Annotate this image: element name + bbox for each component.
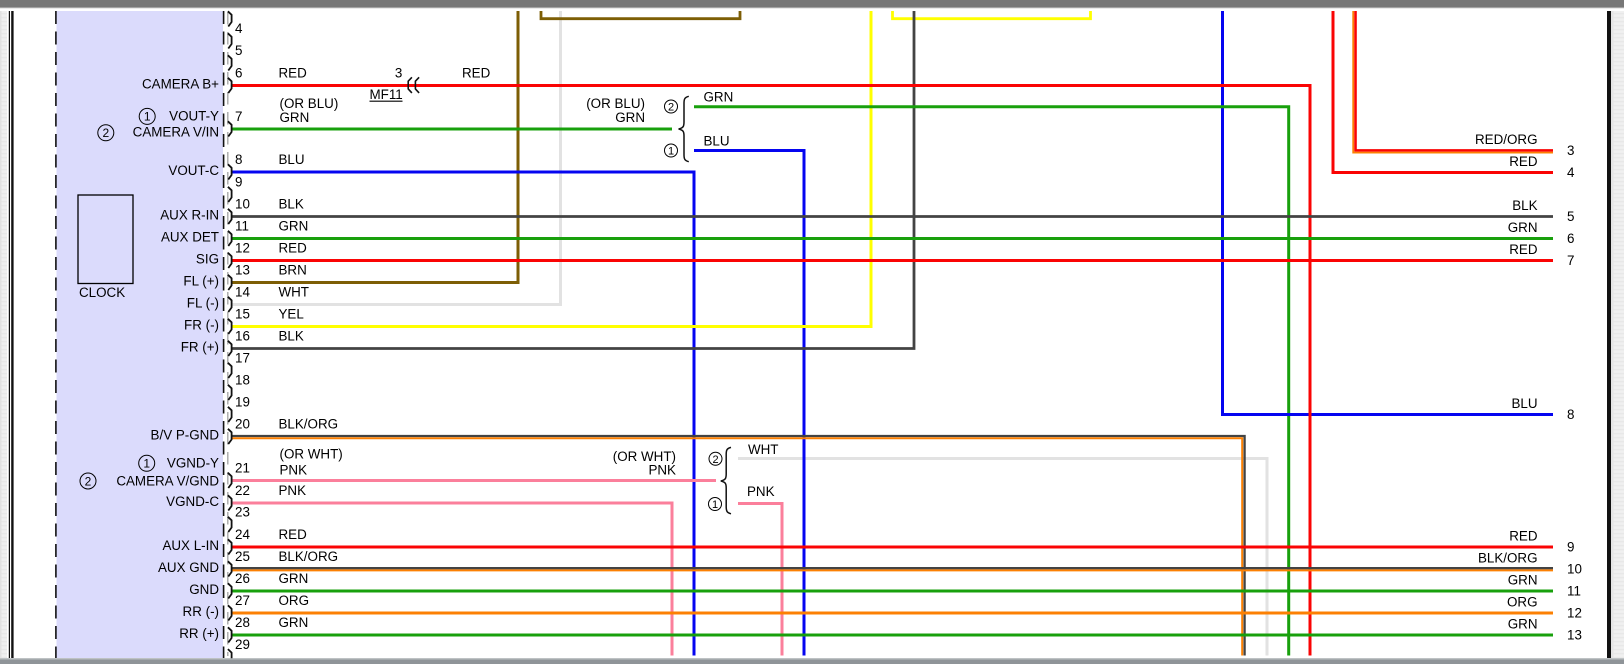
svg-text:(OR WHT): (OR WHT) <box>280 447 343 462</box>
svg-text:FR (-): FR (-) <box>184 317 219 332</box>
svg-text:1: 1 <box>143 457 150 471</box>
wire pin22 PNK VGND-C: down to bottom <box>232 503 672 656</box>
svg-text:27: 27 <box>235 593 250 608</box>
svg-text:RED: RED <box>279 527 308 542</box>
wire pin20 BLK/ORG orange part <box>232 438 1242 655</box>
bottom scrollbar <box>0 659 1624 664</box>
svg-text:7: 7 <box>1567 253 1574 268</box>
svg-text:22: 22 <box>235 483 250 498</box>
svg-text:B/V P-GND: B/V P-GND <box>151 427 220 442</box>
svg-text:9: 9 <box>1567 540 1574 555</box>
svg-text:GRN: GRN <box>279 219 309 234</box>
svg-text:25: 25 <box>235 549 250 564</box>
svg-text:1: 1 <box>668 145 674 157</box>
svg-text:WHT: WHT <box>279 285 310 300</box>
svg-text:23: 23 <box>235 505 250 520</box>
svg-text:5: 5 <box>1567 209 1574 224</box>
radio box dashed left border <box>55 11 57 658</box>
wire pin10 BLK AUX R-IN to right pin5 <box>232 215 1553 218</box>
svg-text:BLU: BLU <box>704 134 730 149</box>
svg-text:12: 12 <box>235 241 250 256</box>
svg-text:GRN: GRN <box>1508 617 1538 632</box>
svg-text:2: 2 <box>102 126 109 140</box>
svg-text:4: 4 <box>235 21 243 36</box>
wire right pin8 BLU horizontal <box>1221 413 1553 416</box>
svg-text:RR (-): RR (-) <box>183 604 219 619</box>
svg-text:7: 7 <box>235 109 242 124</box>
svg-text:15: 15 <box>235 307 250 322</box>
circled 2 CAMERA V/GND <box>80 473 96 489</box>
svg-text:MF11: MF11 <box>370 87 403 102</box>
svg-text:AUX L-IN: AUX L-IN <box>162 538 219 553</box>
svg-text:GRN: GRN <box>279 615 309 630</box>
svg-text:VOUT-Y: VOUT-Y <box>169 109 219 124</box>
svg-text:FL (-): FL (-) <box>187 295 219 310</box>
svg-text:3: 3 <box>395 66 402 81</box>
svg-text:ORG: ORG <box>279 593 310 608</box>
connector pin sockets <box>228 11 232 664</box>
svg-text:GRN: GRN <box>1508 573 1538 588</box>
wire pin13 BRN: connector to top edge <box>232 11 518 283</box>
svg-text:6: 6 <box>1567 231 1574 246</box>
svg-text:BLK: BLK <box>279 329 304 344</box>
svg-text:RED/ORG: RED/ORG <box>1475 132 1538 147</box>
circled 1 at lower brace <box>709 498 722 511</box>
top scrollbar/title bar <box>0 0 1624 7</box>
svg-text:BRN: BRN <box>279 263 307 278</box>
wire right pin3 RED/ORG red part <box>1356 11 1554 150</box>
svg-text:RED: RED <box>279 66 308 81</box>
clock box <box>78 195 133 284</box>
svg-text:18: 18 <box>235 373 250 388</box>
svg-text:YEL: YEL <box>279 307 304 322</box>
circled 1 VGND-Y <box>139 455 155 471</box>
svg-text:AUX DET: AUX DET <box>161 229 219 244</box>
svg-text:2: 2 <box>85 474 92 488</box>
circled 1 VOUT-Y <box>139 108 155 124</box>
wire pin27 ORG RR(-) to right pin12 <box>232 612 1553 615</box>
right page edge texture <box>1611 11 1624 658</box>
svg-text:8: 8 <box>235 152 242 167</box>
svg-text:GRN: GRN <box>615 110 645 125</box>
svg-text:10: 10 <box>235 197 250 212</box>
svg-text:CLOCK: CLOCK <box>79 285 125 300</box>
svg-text:RED: RED <box>1509 242 1538 257</box>
svg-text:RED: RED <box>279 241 308 256</box>
svg-text:GRN: GRN <box>280 110 310 125</box>
svg-text:(OR BLU): (OR BLU) <box>280 96 339 111</box>
left page edge texture <box>0 11 7 658</box>
wire pin28 GRN RR(+) to right pin13 <box>232 634 1553 637</box>
connector spine (gray dashes) <box>227 12 229 656</box>
svg-text:AUX R-IN: AUX R-IN <box>160 207 219 222</box>
svg-text:2: 2 <box>668 101 674 113</box>
svg-text:BLK/ORG: BLK/ORG <box>279 417 339 432</box>
svg-text:11: 11 <box>1567 584 1581 599</box>
svg-text:(OR BLU): (OR BLU) <box>586 96 645 111</box>
circled 2 at upper brace <box>665 100 678 113</box>
wire right pin4 RED from top edge <box>1333 11 1553 173</box>
svg-text:1: 1 <box>144 110 151 124</box>
svg-text:CAMERA V/GND: CAMERA V/GND <box>116 473 219 488</box>
svg-text:2: 2 <box>712 454 718 466</box>
svg-text:9: 9 <box>235 175 242 190</box>
svg-text:26: 26 <box>235 571 250 586</box>
wire right pin3 RED/ORG orange part <box>1353 11 1553 153</box>
wire pin16 BLK: connector to top edge <box>232 11 914 349</box>
svg-text:FR (+): FR (+) <box>181 339 219 354</box>
radio unit box (lavender) <box>57 11 224 658</box>
wire branch 1 BLU from brace down to bottom <box>694 151 804 656</box>
wire pin25 BLK/ORG AUX GND orange part <box>232 569 1553 571</box>
wire pin8 BLU VOUT-C: connector down to bottom <box>232 172 694 656</box>
svg-text:RR (+): RR (+) <box>179 626 219 641</box>
wire pin20 BLK/ORG black part <box>232 436 1245 656</box>
svg-text:VGND-Y: VGND-Y <box>167 456 219 471</box>
svg-text:CAMERA V/IN: CAMERA V/IN <box>133 125 219 140</box>
wire branch 1 PNK from lower brace down to bottom <box>738 504 782 656</box>
svg-text:VOUT-C: VOUT-C <box>168 163 219 178</box>
wire pin21 PNK to lower brace <box>232 479 716 482</box>
brace pin21 split <box>721 447 731 513</box>
svg-text:21: 21 <box>235 461 250 476</box>
svg-text:BLU: BLU <box>279 152 305 167</box>
svg-text:12: 12 <box>1567 606 1582 621</box>
wire pin24 RED AUX L-IN to right pin9 <box>232 546 1553 549</box>
svg-text:GRN: GRN <box>279 571 309 586</box>
svg-text:17: 17 <box>235 351 250 366</box>
wire pin11 GRN AUX DET to right pin6 <box>232 237 1553 240</box>
svg-text:13: 13 <box>1567 628 1582 643</box>
svg-text:VGND-C: VGND-C <box>166 494 219 509</box>
svg-text:13: 13 <box>235 263 250 278</box>
wire branch 2 WHT from lower brace down to bottom <box>738 459 1267 656</box>
wire branch 2 GRN from brace down to bottom <box>694 107 1289 656</box>
svg-text:BLU: BLU <box>1511 396 1537 411</box>
circled 2 CAMERA V/IN <box>98 125 114 141</box>
wire pin25 BLK/ORG AUX GND black part <box>232 567 1553 569</box>
svg-text:AUX GND: AUX GND <box>158 560 219 575</box>
svg-text:BLK/ORG: BLK/ORG <box>279 549 339 564</box>
svg-text:6: 6 <box>235 66 242 81</box>
svg-text:20: 20 <box>235 417 250 432</box>
wire pin12 RED SIG to right pin7 <box>232 259 1553 262</box>
svg-text:PNK: PNK <box>747 484 775 499</box>
svg-text:ORG: ORG <box>1507 595 1538 610</box>
svg-text:11: 11 <box>235 219 249 234</box>
wire pin7 GRN CAMERA V/IN to brace <box>232 128 672 131</box>
wire pin26 GRN GND to right pin11 <box>232 590 1553 593</box>
svg-text:BLK/ORG: BLK/ORG <box>1478 551 1538 566</box>
svg-text:4: 4 <box>1567 165 1575 180</box>
svg-text:PNK: PNK <box>648 463 676 478</box>
circled 1 at upper brace <box>665 144 678 157</box>
svg-text:BLK: BLK <box>279 197 304 212</box>
svg-text:5: 5 <box>235 43 242 58</box>
svg-text:24: 24 <box>235 527 250 542</box>
svg-text:RED: RED <box>1509 154 1538 169</box>
svg-text:GRN: GRN <box>1508 220 1538 235</box>
svg-text:10: 10 <box>1567 562 1582 577</box>
svg-text:FL (+): FL (+) <box>183 273 219 288</box>
wire right pin8 BLU vertical from top edge <box>1221 11 1224 415</box>
svg-text:PNK: PNK <box>280 463 308 478</box>
svg-text:28: 28 <box>235 615 250 630</box>
svg-text:GRN: GRN <box>704 89 734 104</box>
svg-text:SIG: SIG <box>196 251 219 266</box>
wire YEL loop at top <box>893 11 1091 19</box>
wire pin6 RED CAMERA B+ : across and down to bottom <box>232 86 1310 656</box>
svg-text:GND: GND <box>189 582 219 597</box>
brace pin7 split <box>679 96 689 161</box>
circled 2 at lower brace <box>709 452 722 465</box>
svg-text:3: 3 <box>1567 143 1574 158</box>
wire BRN loop at top <box>541 11 740 19</box>
svg-text:14: 14 <box>235 285 250 300</box>
splice MF11 <box>408 77 419 93</box>
svg-text:29: 29 <box>235 637 250 652</box>
svg-text:RED: RED <box>1509 529 1538 544</box>
svg-text:19: 19 <box>235 395 250 410</box>
svg-text:BLK: BLK <box>1512 198 1537 213</box>
radio box dashed right border <box>223 11 225 658</box>
left page border double line <box>8 11 10 658</box>
svg-text:WHT: WHT <box>748 442 779 457</box>
svg-text:16: 16 <box>235 329 250 344</box>
svg-text:1: 1 <box>712 499 718 511</box>
right page border line <box>1607 11 1611 658</box>
svg-text:RED: RED <box>462 66 491 81</box>
wire pin14 WHT: connector to top edge <box>232 11 561 305</box>
svg-text:CAMERA B+: CAMERA B+ <box>142 76 219 91</box>
svg-text:PNK: PNK <box>279 483 307 498</box>
wire pin15 YEL: connector to top edge <box>232 11 871 327</box>
svg-text:8: 8 <box>1567 407 1574 422</box>
